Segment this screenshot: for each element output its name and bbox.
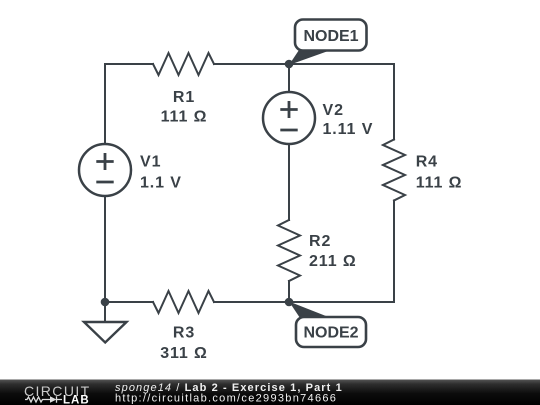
logo diode: [50, 396, 62, 403]
resistor R1: [153, 53, 214, 75]
wire top-left (V1 top to R1 left lead): [105, 63, 153, 65]
svg-text:311 Ω: 311 Ω: [160, 345, 208, 362]
svg-text:R4: R4: [416, 154, 438, 171]
svg-text:R2: R2: [309, 233, 331, 250]
wire left rail: [104, 64, 106, 302]
svg-text:NODE1: NODE1: [303, 28, 358, 45]
junction dot at ground node: [101, 298, 110, 307]
svg-text:111 Ω: 111 Ω: [416, 175, 463, 192]
svg-text:http://circuitlab.com/ce2993bn: http://circuitlab.com/ce2993bn74666: [115, 392, 337, 404]
wire right rail lower: [393, 201, 395, 303]
wire bottom-left: [105, 301, 153, 303]
resistor R3: [153, 291, 214, 313]
node NODE1 flag: [289, 20, 367, 66]
voltage source V1: [79, 144, 131, 196]
logo resistor squiggle: [25, 397, 50, 402]
svg-text:111 Ω: 111 Ω: [161, 108, 208, 125]
svg-text:1.11 V: 1.11 V: [323, 121, 374, 138]
resistor R2: [278, 220, 300, 281]
svg-text:R3: R3: [173, 325, 195, 342]
svg-text:1.1 V: 1.1 V: [140, 175, 182, 192]
wire right rail upper: [393, 64, 395, 140]
wire bottom-right: [214, 301, 394, 303]
svg-text:V2: V2: [323, 102, 344, 119]
resistor R4: [383, 140, 405, 201]
wire middle rail lower: [288, 281, 290, 302]
junction dot at NODE1: [285, 60, 294, 69]
svg-text:R1: R1: [173, 89, 195, 106]
wire top-right (R1 to NODE1 to right rail): [214, 63, 394, 65]
svg-text:LAB: LAB: [63, 394, 90, 405]
footer bar: [0, 380, 540, 405]
svg-text:211 Ω: 211 Ω: [309, 253, 357, 270]
node NODE2 flag: [289, 302, 366, 348]
ground: [84, 302, 127, 343]
junction dot at NODE2: [285, 298, 294, 307]
voltage source V2: [263, 92, 315, 144]
svg-text:V1: V1: [140, 154, 161, 171]
svg-text:NODE2: NODE2: [303, 325, 358, 342]
wire middle rail upper: [288, 64, 290, 220]
